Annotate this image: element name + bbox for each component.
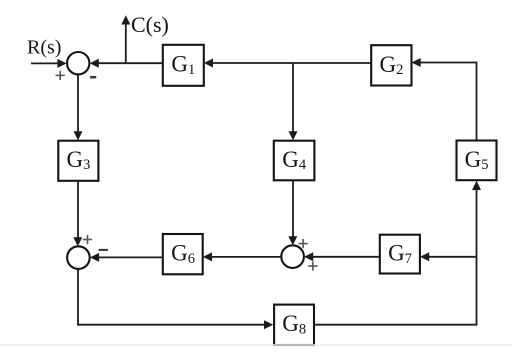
arrowhead into summing junction S1 from R(s) (57, 59, 66, 68)
wire S2 output to G6 (262, 256, 281, 258)
arrowhead into G4 (289, 131, 298, 140)
wire right column below G5 (476, 189, 478, 325)
block G8 (274, 305, 314, 345)
wire G3 output to S3 (77, 181, 79, 243)
minus sign at S3 (G6 input) (99, 249, 108, 251)
arrowhead into G8 (264, 320, 273, 329)
wire right column to G2 (421, 62, 477, 64)
arrowhead into G1 from G2 (204, 59, 213, 68)
wire G7 output to S2 (313, 256, 380, 258)
block G1 (163, 45, 204, 86)
arrowhead into G3 top (74, 131, 83, 140)
wire branch down to G4 (292, 63, 294, 137)
wire G6 output to S3 (99, 256, 163, 258)
arrowhead into S2 top (288, 236, 297, 245)
plus sign at S3 (G3 input) (83, 235, 92, 244)
block G4 (274, 141, 315, 181)
arrowhead into G6 (203, 252, 212, 261)
wire right column to G7 (429, 256, 477, 258)
svg-text:R(s): R(s) (27, 37, 61, 59)
wire G5 up to G2 corner (476, 62, 478, 141)
block G3 (58, 141, 98, 181)
summing junction S3 (67, 246, 90, 269)
wire bottom run to G8 (77, 324, 265, 326)
block G5 (457, 141, 497, 181)
arrowhead into G7 (420, 252, 429, 261)
arrowhead into S3 top (73, 237, 82, 246)
wire C(s) branch (125, 24, 127, 64)
wire S1 output down to G3 (77, 74, 79, 136)
plus sign at S2 (G7 input) (308, 261, 317, 270)
faint page rule at bottom (0, 344, 512, 346)
arrowhead into S1 from G1 (90, 59, 99, 68)
arrowhead C(s) output (121, 15, 130, 24)
summing junction S2 (281, 245, 304, 268)
wire G4 output to S2 (292, 181, 294, 243)
arrowhead into S3 from G6 (90, 253, 99, 262)
arrowhead into G5 bottom (472, 181, 481, 190)
svg-text:C(s): C(s) (131, 12, 169, 37)
block G2 (371, 45, 411, 85)
minus sign at S1 (feedback input) (90, 76, 96, 79)
wire G1 output to S1 (99, 62, 163, 64)
summing junction S1 (67, 52, 89, 74)
arrowhead into S2 from G7 (304, 252, 313, 261)
wire G8 output to right column (314, 324, 477, 326)
plus sign at S2 (G4 input) (299, 239, 308, 248)
block G6 (163, 234, 203, 274)
wire G2 output to G1 (213, 62, 371, 64)
wire R(s) input (31, 62, 59, 64)
plus sign at S1 (R input) (56, 71, 65, 80)
block G7 (380, 235, 420, 274)
wire S3 output down (77, 269, 79, 326)
arrowhead into G2 (412, 58, 421, 67)
